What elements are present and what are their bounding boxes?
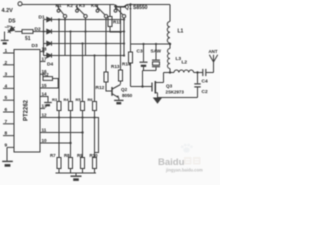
wire diode common rail <box>43 20 45 56</box>
node drop1-row1 <box>58 18 60 20</box>
pin 14 to ground <box>40 97 48 102</box>
resistor R4 <box>69 102 73 111</box>
resistor R14 <box>130 44 132 52</box>
resistor R10 <box>93 158 97 169</box>
pin 16 / resistor R2 / pin 15 loop <box>40 74 43 76</box>
svg-text:8050: 8050 <box>122 93 133 98</box>
wire top rail left segment <box>22 4 114 6</box>
resistor R12 <box>104 72 108 82</box>
pin 8 <box>3 135 14 137</box>
wire K3 column down to R12 <box>105 56 107 73</box>
resistor R11 <box>109 5 111 17</box>
svg-text:17: 17 <box>42 57 48 62</box>
resistor R3 <box>57 102 61 111</box>
svg-text:8: 8 <box>5 131 8 137</box>
wire drop to R3 <box>58 20 60 158</box>
svg-text:2: 2 <box>5 60 8 66</box>
node row2 right end <box>123 30 125 32</box>
svg-text:10: 10 <box>42 138 48 143</box>
svg-text:11: 11 <box>42 127 47 132</box>
wire matrix row 4 <box>57 55 124 57</box>
ground (pin 14) <box>44 102 52 104</box>
wire R11 to Q1 base line <box>110 27 121 33</box>
svg-text:D1: D1 <box>39 15 45 21</box>
svg-text:D4: D4 <box>47 62 53 68</box>
inductor L1 <box>169 5 171 22</box>
svg-text:R7: R7 <box>50 153 56 158</box>
MOSFET Q3 2SK2973 <box>152 81 164 98</box>
wire top rail right segment <box>127 4 170 6</box>
resistor R6 <box>93 102 97 111</box>
node K2 col-row2 <box>84 30 86 32</box>
wire drop to R5 <box>82 44 84 158</box>
svg-text:DS: DS <box>9 19 17 25</box>
node bus col1 <box>58 116 60 118</box>
ground (pin 9) <box>6 147 8 160</box>
svg-text:K2: K2 <box>67 3 73 8</box>
pin 11 wire <box>40 132 83 134</box>
svg-text:C2: C2 <box>202 89 208 95</box>
svg-text:C3: C3 <box>137 49 143 55</box>
LED DS <box>4 22 16 34</box>
wire matrix row 2 <box>57 31 124 33</box>
node pin11-col3 <box>81 131 83 133</box>
svg-text:K3: K3 <box>79 3 85 8</box>
svg-text:4: 4 <box>5 83 8 89</box>
pin 17 stub <box>40 61 46 63</box>
inductor L2 <box>174 70 194 72</box>
switch K2 <box>76 5 88 18</box>
node col3-row4 <box>105 54 107 56</box>
wire gate line <box>131 86 153 88</box>
pin 2 <box>3 64 14 66</box>
switch K3 <box>96 5 108 18</box>
pin 7 <box>3 123 14 125</box>
svg-text:14: 14 <box>42 91 48 96</box>
watermark Baidu <box>158 144 203 173</box>
node col4-row4 <box>93 54 95 56</box>
wire Q1 base line down <box>120 7 122 70</box>
node col3-row3 <box>81 42 83 44</box>
node SAW top <box>155 43 157 45</box>
svg-text:R5: R5 <box>76 97 82 102</box>
capacitor C4 <box>202 69 204 76</box>
svg-text:2SK2973: 2SK2973 <box>166 90 185 95</box>
diode D1 <box>44 17 58 21</box>
pin 12 bus wire <box>40 118 99 153</box>
capacitor C2 <box>197 73 199 84</box>
svg-text:Q2: Q2 <box>121 87 128 92</box>
node collector rail junction <box>129 3 131 5</box>
pin 4 <box>3 87 14 89</box>
pin 1 <box>3 52 14 54</box>
node R1-rail junction <box>42 30 44 32</box>
node bus col2 <box>69 116 71 118</box>
switch K4 <box>114 5 126 18</box>
wire resistor bottoms rail <box>59 169 95 174</box>
transistor Q1 S8550 <box>114 5 127 7</box>
svg-text:Baidu: Baidu <box>158 157 185 168</box>
wire R13 to Q2 collector <box>120 81 122 84</box>
svg-text:L1: L1 <box>178 29 184 35</box>
node K1 col-row1 <box>64 18 66 20</box>
wire source-C2 ground line <box>158 97 198 99</box>
svg-text:R14: R14 <box>122 62 131 67</box>
svg-text:S8550: S8550 <box>133 5 148 11</box>
capacitor C3 <box>143 44 145 62</box>
transistor Q2 S8050 <box>112 85 121 100</box>
wire matrix row 1 <box>57 19 124 21</box>
wire oscillator node line <box>131 43 171 45</box>
ground (bottom rail) <box>75 173 77 176</box>
node antenna branch <box>196 71 198 73</box>
wire LED to R1 <box>15 31 22 33</box>
svg-text:C4: C4 <box>202 79 208 85</box>
resistor R1 value 51 <box>22 30 33 34</box>
inductor L3 <box>169 44 171 49</box>
wire supply drop <box>130 5 132 45</box>
node bus col4 <box>93 116 95 118</box>
svg-text:1: 1 <box>5 48 8 54</box>
node base line junction <box>119 31 121 33</box>
node pin18-rail junction <box>42 50 44 52</box>
wire R1 to diode rail <box>33 31 44 33</box>
switch K1 <box>57 5 67 18</box>
pin 3 <box>3 76 14 78</box>
pin 5 <box>3 99 14 101</box>
svg-text:4.2V: 4.2V <box>2 8 14 14</box>
svg-text:Q3: Q3 <box>166 84 173 89</box>
wire L2 to C4 node <box>194 72 203 74</box>
wire matrix column K3 <box>105 18 107 56</box>
antenna ANT <box>213 62 215 73</box>
node C3 top <box>142 43 144 45</box>
ground (Q2 emitter) <box>114 99 123 101</box>
node gate line junction <box>141 85 143 87</box>
ground (LED DS) <box>4 32 6 40</box>
wire R14 to gate line <box>130 63 132 87</box>
node row3 right end <box>123 42 125 44</box>
svg-text:R9: R9 <box>77 153 83 158</box>
svg-text:K1: K1 <box>56 3 62 8</box>
wire drain link <box>164 72 175 74</box>
node row1 right end <box>123 18 125 20</box>
svg-text:jingyan.baidu.com: jingyan.baidu.com <box>165 168 203 173</box>
resistor R8 <box>69 158 73 169</box>
pin 13 stub <box>40 108 45 110</box>
svg-text:3: 3 <box>5 72 8 78</box>
svg-text:7: 7 <box>5 119 8 125</box>
node row4 right end <box>123 54 125 56</box>
resistor R7 <box>57 158 61 169</box>
wire drop to R4 <box>70 32 72 158</box>
wire matrix column K4 <box>123 18 125 56</box>
svg-text:ANT: ANT <box>209 49 218 54</box>
pin 9 <box>7 146 14 148</box>
svg-text:13: 13 <box>42 104 48 109</box>
node col2-row2 <box>69 30 71 32</box>
svg-text:PT2262: PT2262 <box>24 99 30 121</box>
pin 10 wire <box>40 142 71 144</box>
resistor R9 <box>81 158 85 169</box>
resistor R5 <box>81 102 85 111</box>
battery positive terminal <box>18 2 22 6</box>
svg-text:51: 51 <box>25 36 31 42</box>
svg-text:L2: L2 <box>182 60 188 66</box>
wire R12 to Q2 base <box>106 82 112 91</box>
svg-text:12: 12 <box>42 112 48 117</box>
ground (Q3 source, filled) <box>153 98 162 104</box>
pin 6 <box>3 111 14 113</box>
wire drop to R6 <box>94 56 96 158</box>
diode D2 <box>44 29 58 33</box>
svg-text:K4: K4 <box>91 3 97 8</box>
wire C3/SAW bottom bus <box>143 70 157 72</box>
svg-text:D3: D3 <box>32 43 38 49</box>
svg-text:R6: R6 <box>88 97 94 102</box>
svg-text:R2: R2 <box>43 72 49 78</box>
wire matrix row 3 <box>57 43 124 45</box>
svg-text:SAW: SAW <box>151 49 162 54</box>
svg-text:R3: R3 <box>52 97 58 102</box>
svg-text:R13: R13 <box>111 64 120 69</box>
wire matrix column K2 <box>85 18 87 56</box>
svg-text:15: 15 <box>42 83 48 88</box>
svg-text:D2: D2 <box>35 27 41 33</box>
node pin10-col2 <box>69 142 71 144</box>
diode D4 <box>44 53 58 57</box>
svg-text:R12: R12 <box>96 85 105 91</box>
node bus col3 <box>81 116 83 118</box>
svg-text:R8: R8 <box>64 153 70 158</box>
svg-text:5: 5 <box>5 95 8 101</box>
svg-text:R10: R10 <box>90 153 99 158</box>
wire bus drop to gate line <box>142 71 144 87</box>
svg-text:R4: R4 <box>64 97 70 102</box>
IC U1 PT2262 <box>14 50 40 153</box>
svg-text:18: 18 <box>42 47 48 52</box>
SAW resonator <box>155 44 157 60</box>
node L1 bottom <box>169 43 171 45</box>
pin 18 to diode rail <box>40 51 44 53</box>
node K3 col-row3 <box>105 42 107 44</box>
resistor R13 <box>119 70 123 81</box>
svg-text:6: 6 <box>5 107 8 113</box>
wire matrix column K1 <box>64 18 66 56</box>
node L3 bottom <box>169 71 171 73</box>
diode D3 <box>44 41 58 45</box>
